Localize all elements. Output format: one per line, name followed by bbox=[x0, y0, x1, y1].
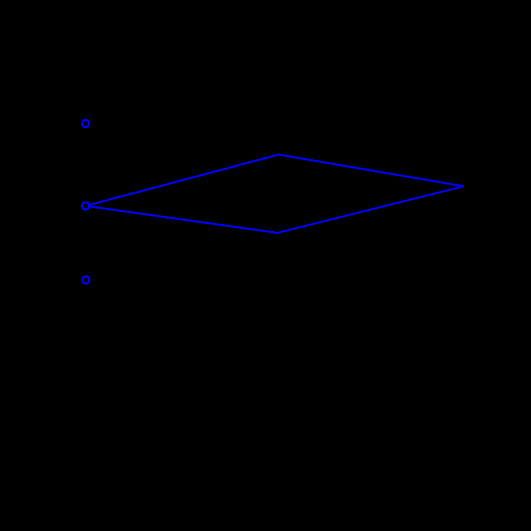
node marker middle (left vertex of quadrilateral) bbox=[82, 202, 89, 209]
node marker top bbox=[82, 120, 89, 127]
quadrilateral outline (closed polygon) bbox=[86, 155, 464, 233]
node marker bottom bbox=[82, 276, 89, 283]
